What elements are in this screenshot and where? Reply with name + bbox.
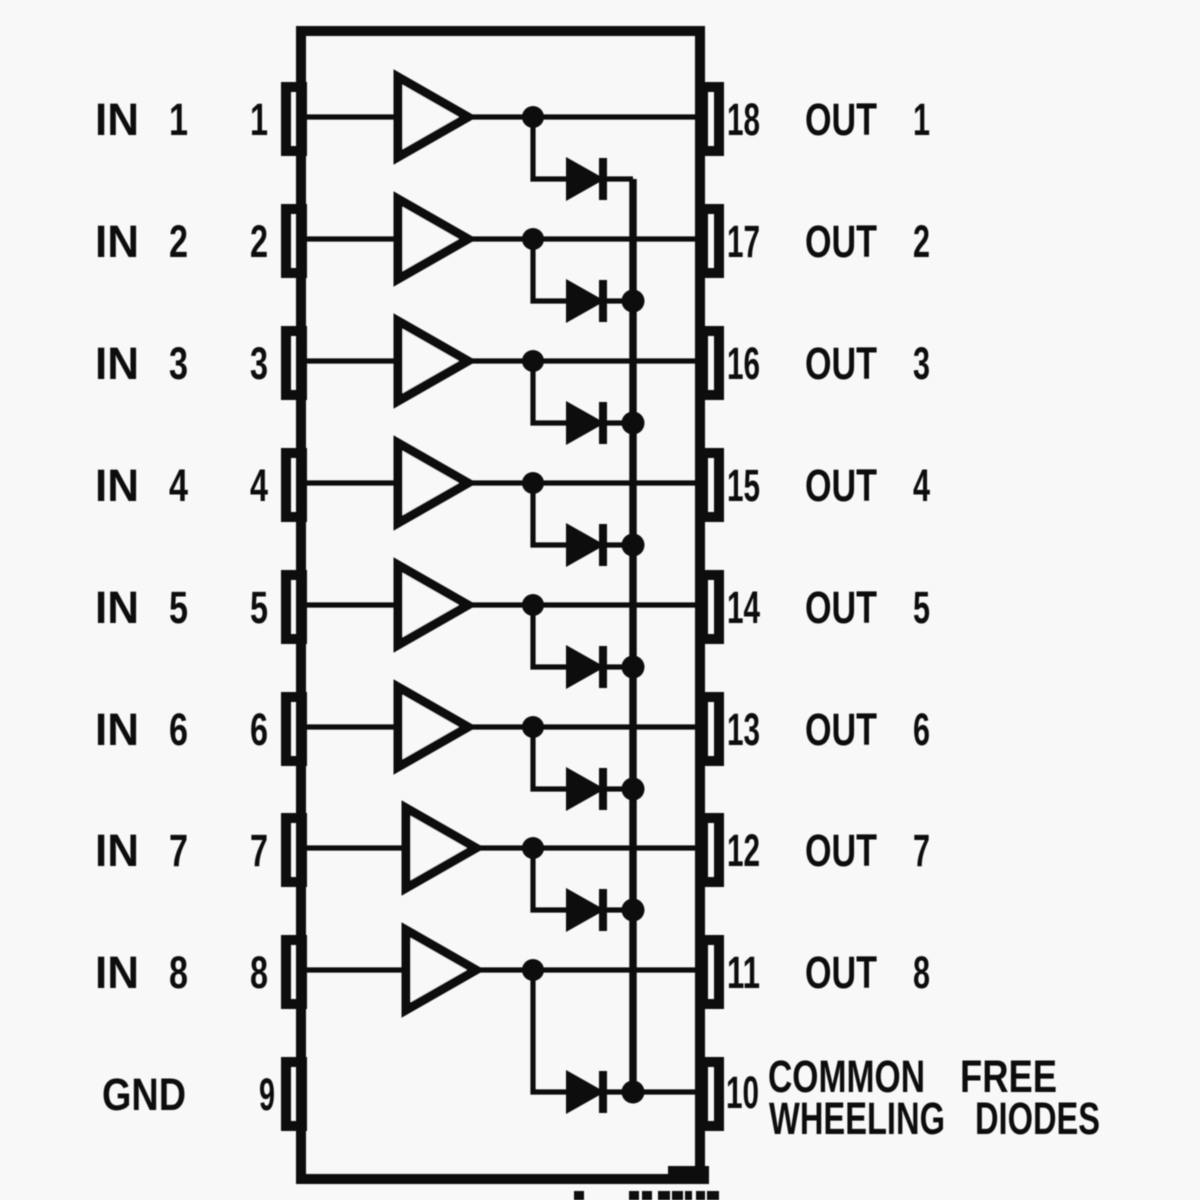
wire diode D2 cathode to common bus: [606, 298, 633, 303]
svg-text:OUT: OUT: [805, 460, 877, 511]
svg-text:OUT: OUT: [805, 947, 877, 998]
label OUT 7: [805, 825, 877, 876]
svg-text:5: 5: [169, 582, 188, 633]
pin 8 (IN 8): [286, 940, 302, 1004]
junction node row 5: [522, 594, 544, 616]
label IN 8: [95, 947, 139, 998]
pin 6 (IN 6): [286, 697, 302, 761]
buffer A7: [406, 808, 476, 888]
wire diode D1 cathode to common bus: [606, 176, 633, 181]
pin 16 (OUT 3): [703, 331, 719, 395]
pin 9 (GND): [286, 1062, 302, 1126]
pin 2 (IN 2): [286, 209, 302, 273]
wire IN1 input to buffer: [307, 114, 398, 119]
svg-text:8: 8: [169, 947, 188, 998]
svg-text:4: 4: [250, 460, 268, 511]
wire diode D8 cathode to common bus: [606, 1089, 698, 1094]
svg-text:IN: IN: [95, 216, 139, 267]
label IN 4 channel digit: [169, 460, 188, 511]
svg-text:OUT: OUT: [805, 216, 877, 267]
label OUT 4 channel digit: [913, 460, 930, 511]
svg-text:14: 14: [727, 582, 760, 633]
wire buffer A5 output to OUT 5 pin: [468, 602, 698, 607]
wire junction row 1 down to diode D1: [533, 117, 566, 179]
svg-text:11: 11: [727, 947, 760, 998]
wire junction row 8 down to diode D8: [533, 970, 566, 1092]
svg-text:6: 6: [250, 704, 268, 755]
svg-text:WHEELING: WHEELING: [769, 1093, 945, 1144]
svg-text:IN: IN: [95, 704, 139, 755]
label OUT 3 channel digit: [913, 338, 930, 389]
pin 15 (OUT 4): [703, 453, 719, 517]
common free wheeling diode bus (vertical wire): [629, 179, 637, 1092]
svg-text:DIODES: DIODES: [975, 1093, 1100, 1144]
svg-text:18: 18: [727, 94, 760, 145]
wire buffer A4 output to OUT 4 pin: [468, 480, 698, 485]
pin 12 (OUT 7): [703, 818, 719, 882]
wire diode D5 cathode to common bus: [606, 664, 633, 669]
junction node row 4: [522, 472, 544, 494]
svg-text:12: 12: [727, 825, 760, 876]
svg-text:IN: IN: [95, 825, 139, 876]
junction node row 1: [522, 106, 544, 128]
pin number 14: [727, 582, 760, 633]
pin number 6: [250, 704, 268, 755]
wire diode D7 cathode to common bus: [606, 907, 633, 912]
diode D7: [566, 888, 605, 932]
svg-text:6: 6: [169, 704, 188, 755]
wire junction row 7 down to diode D7: [533, 848, 566, 910]
label OUT 2: [805, 216, 877, 267]
svg-text:5: 5: [250, 582, 268, 633]
svg-text:13: 13: [727, 704, 760, 755]
svg-text:1: 1: [913, 94, 930, 145]
wire IN6 input to buffer: [307, 724, 398, 729]
svg-text:1: 1: [250, 94, 268, 145]
label IN 1: [95, 94, 139, 145]
buffer A8: [406, 930, 476, 1010]
label IN 6: [95, 704, 139, 755]
junction node row 8: [522, 959, 544, 981]
diode D3: [566, 401, 605, 445]
pin 11 (OUT 8): [703, 940, 719, 1004]
pin number 5: [250, 582, 268, 633]
label OUT 1 channel digit: [913, 94, 930, 145]
buffer A1: [398, 77, 468, 157]
wire junction row 5 down to diode D5: [533, 605, 566, 667]
label OUT 4: [805, 460, 877, 511]
label OUT 6: [805, 704, 877, 755]
junction node row 2: [522, 228, 544, 250]
label IN 7 channel digit: [169, 825, 188, 876]
diode D1: [566, 157, 605, 201]
svg-text:10: 10: [726, 1067, 759, 1118]
svg-text:IN: IN: [95, 338, 139, 389]
pin 13 (OUT 6): [703, 697, 719, 761]
junction node diode D2 on common bus: [622, 290, 645, 313]
pin number 7: [250, 825, 268, 876]
junction node row 6: [522, 716, 544, 738]
pin number 13: [727, 704, 760, 755]
pin 18 (OUT 1): [703, 87, 719, 151]
label IN 7: [95, 825, 139, 876]
wire buffer A6 output to OUT 6 pin: [468, 724, 698, 729]
pin number 11: [727, 947, 760, 998]
buffer A6: [398, 687, 468, 767]
label IN 3 channel digit: [169, 338, 188, 389]
pin number 1: [250, 94, 268, 145]
svg-text:3: 3: [250, 338, 268, 389]
svg-text:17: 17: [727, 216, 760, 267]
wire buffer A7 output to OUT 7 pin: [476, 845, 698, 850]
svg-text:8: 8: [913, 947, 930, 998]
wire IN3 input to buffer: [307, 358, 398, 363]
svg-text:2: 2: [913, 216, 930, 267]
label OUT 5: [805, 582, 877, 633]
diode D6: [566, 767, 605, 811]
junction node diode D6 on common bus: [622, 778, 645, 801]
label OUT 7 channel digit: [913, 825, 930, 876]
wire buffer A3 output to OUT 3 pin: [468, 358, 698, 363]
svg-text:4: 4: [913, 460, 930, 511]
label IN 6 channel digit: [169, 704, 188, 755]
pin 14 (OUT 5): [703, 575, 719, 639]
junction node diode D3 on common bus: [622, 412, 645, 435]
label OUT 5 channel digit: [913, 582, 930, 633]
pin number 18: [727, 94, 760, 145]
svg-text:2: 2: [169, 216, 188, 267]
svg-text:2: 2: [250, 216, 268, 267]
pin 17 (OUT 2): [703, 209, 719, 273]
wire junction row 3 down to diode D3: [533, 361, 566, 423]
pin number 12: [727, 825, 760, 876]
pin number 3: [250, 338, 268, 389]
svg-text:OUT: OUT: [805, 94, 877, 145]
pin 7 (IN 7): [286, 818, 302, 882]
body outline bottom-right thicker step (scan artifact): [668, 1166, 709, 1184]
svg-text:GND: GND: [102, 1069, 186, 1120]
label FREE: [960, 1051, 1057, 1102]
junction node diode D5 on common bus: [622, 656, 645, 679]
wire diode D3 cathode to common bus: [606, 420, 633, 425]
pin number 9: [259, 1069, 275, 1120]
label IN 5: [95, 582, 139, 633]
wire diode D6 cathode to common bus: [606, 786, 633, 791]
junction node diode D4 on common bus: [622, 534, 645, 557]
wire buffer A8 output to OUT 8 pin: [476, 967, 698, 972]
label OUT 8 channel digit: [913, 947, 930, 998]
diode D4: [566, 523, 605, 567]
svg-text:16: 16: [727, 338, 760, 389]
junction node row 3: [522, 350, 544, 372]
label OUT 6 channel digit: [913, 704, 930, 755]
junction node diode D7 on common bus: [622, 899, 645, 922]
diode D8: [566, 1070, 605, 1114]
wire IN2 input to buffer: [307, 236, 398, 241]
svg-text:1: 1: [169, 94, 188, 145]
svg-text:3: 3: [913, 338, 930, 389]
pin 1 (IN 1): [286, 87, 302, 151]
label OUT 1: [805, 94, 877, 145]
pin 3 (IN 3): [286, 331, 302, 395]
pin number 2: [250, 216, 268, 267]
label DIODES: [975, 1093, 1100, 1144]
buffer A3: [398, 321, 468, 401]
wire buffer A2 output to OUT 2 pin: [468, 236, 698, 241]
label COMMON: [768, 1051, 925, 1102]
wire buffer A1 output to OUT 1 pin: [468, 114, 698, 119]
label OUT 2 channel digit: [913, 216, 930, 267]
label IN 5 channel digit: [169, 582, 188, 633]
pin 5 (IN 5): [286, 575, 302, 639]
buffer A4: [398, 443, 468, 523]
pin number 8: [250, 947, 268, 998]
buffer A2: [398, 199, 468, 279]
diode D2: [566, 279, 605, 323]
svg-text:OUT: OUT: [805, 704, 877, 755]
IC body outline: [301, 31, 700, 1179]
pin number 15: [727, 460, 760, 511]
svg-text:8: 8: [250, 947, 268, 998]
wire junction row 2 down to diode D2: [533, 239, 566, 301]
label WHEELING: [769, 1093, 945, 1144]
svg-text:OUT: OUT: [805, 582, 877, 633]
cut-off supply label fragments at bottom edge: [574, 1191, 719, 1200]
pin number 16: [727, 338, 760, 389]
svg-text:IN: IN: [95, 460, 139, 511]
wire IN4 input to buffer: [307, 480, 398, 485]
pin number 10: [726, 1067, 759, 1118]
label GND: [102, 1069, 186, 1120]
svg-text:IN: IN: [95, 582, 139, 633]
label IN 2 channel digit: [169, 216, 188, 267]
pin number 4: [250, 460, 268, 511]
svg-text:IN: IN: [95, 94, 139, 145]
junction node diode D8 on common bus: [622, 1081, 645, 1104]
label OUT 3: [805, 338, 877, 389]
svg-text:15: 15: [727, 460, 760, 511]
label IN 2: [95, 216, 139, 267]
svg-text:6: 6: [913, 704, 930, 755]
pin 10 (COMMON FREE WHEELING DIODES): [703, 1062, 719, 1126]
svg-text:7: 7: [250, 825, 268, 876]
wire junction row 6 down to diode D6: [533, 727, 566, 789]
svg-text:7: 7: [913, 825, 930, 876]
svg-text:3: 3: [169, 338, 188, 389]
svg-text:IN: IN: [95, 947, 139, 998]
wire diode D4 cathode to common bus: [606, 542, 633, 547]
buffer A5: [398, 565, 468, 645]
label OUT 8: [805, 947, 877, 998]
label IN 8 channel digit: [169, 947, 188, 998]
junction node row 7: [522, 837, 544, 859]
svg-text:7: 7: [169, 825, 188, 876]
pin number 17: [727, 216, 760, 267]
svg-text:OUT: OUT: [805, 825, 877, 876]
wire IN7 input to buffer: [307, 845, 406, 850]
svg-text:OUT: OUT: [805, 338, 877, 389]
label IN 1 channel digit: [169, 94, 188, 145]
svg-text:5: 5: [913, 582, 930, 633]
wire IN5 input to buffer: [307, 602, 398, 607]
label IN 4: [95, 460, 139, 511]
wire junction row 4 down to diode D4: [533, 483, 566, 545]
diode D5: [566, 645, 605, 689]
pin 4 (IN 4): [286, 453, 302, 517]
wire IN8 input to buffer: [307, 967, 406, 972]
svg-text:4: 4: [169, 460, 188, 511]
label IN 3: [95, 338, 139, 389]
svg-text:9: 9: [259, 1069, 275, 1120]
